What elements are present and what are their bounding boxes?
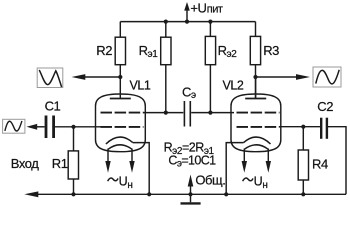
tube VL2 anode plate (245, 98, 266, 100)
tube VL1 anode plate (110, 98, 131, 100)
wire C1 to VL1 control grid (55, 126, 101, 128)
tube VL1 screen grid (dashed) (101, 112, 144, 114)
wire R3 top lead (255, 22, 257, 37)
wire R2 top lead (119, 22, 121, 38)
resistor R1 (68, 151, 78, 179)
arrowhead to input indicator (27, 124, 38, 130)
resistor Rэ2 (205, 36, 215, 64)
node junction Rэ1/rail (164, 20, 168, 24)
wire VL1 cathode lead (133, 143, 149, 195)
tube VL1 heater lead right with arrow (129, 149, 134, 173)
node C1/R1 junction (71, 125, 75, 129)
svg-text:Вход: Вход (11, 156, 39, 171)
wire bottom common rail (38, 193, 346, 195)
node junction Rэ2/rail (208, 20, 212, 24)
arrowhead to left indicator (72, 74, 86, 80)
tube VL2 screen grid (dashed) (237, 112, 280, 114)
resistor R4 (298, 150, 308, 180)
tube VL1 envelope (96, 94, 146, 152)
wire to output sine indicator (256, 76, 297, 78)
capacitor C1 (46, 116, 54, 139)
svg-text:R4: R4 (312, 156, 328, 171)
svg-text:Общ.: Общ. (195, 172, 225, 187)
tube VL1 control grid (dashed) (101, 126, 144, 128)
node anode VL2 / R3 (253, 75, 257, 79)
node R4/C2 junction (301, 125, 305, 129)
wire arrow to C1 (37, 126, 45, 128)
node Общ. / bottom rail (188, 192, 192, 196)
terminal Общ. arrow (188, 175, 194, 195)
wire R4 bottom lead (302, 180, 304, 194)
indicator box output sine (313, 67, 341, 87)
wire Rэ1 top lead (165, 22, 167, 38)
node VL2 cathode / bottom rail (224, 192, 228, 196)
node screen VL1 / Rэ1 (164, 111, 168, 115)
svg-text:C2: C2 (317, 99, 333, 114)
label ~Uн VL2 (243, 174, 268, 191)
resistor R3 (250, 36, 260, 64)
tube VL2 control grid (dashed) (237, 126, 280, 128)
svg-text:Cэ=10C1: Cэ=10C1 (168, 154, 216, 170)
wire Rэ1 bottom lead (165, 65, 167, 113)
node VL1 cathode / bottom rail (147, 192, 151, 196)
arrowhead to right indicator (296, 74, 310, 80)
svg-text:R2: R2 (96, 43, 112, 58)
tube VL2 heater (244, 145, 268, 150)
tube VL2 cathode (244, 137, 271, 144)
wire Rэ2 bottom lead (209, 65, 211, 113)
arrowhead bottom rail left (24, 191, 38, 197)
tube VL2 heater lead right with arrow (266, 149, 271, 173)
tube VL1 heater lead left with arrow (105, 149, 110, 173)
svg-text:R1: R1 (52, 156, 68, 171)
node R1/bottom rail (71, 192, 75, 196)
tube VL2 heater lead left with arrow (242, 149, 247, 173)
svg-text:C1: C1 (45, 98, 61, 113)
svg-text:R3: R3 (263, 43, 279, 58)
wire R3 bottom lead to anode node (255, 65, 257, 99)
tube VL2 envelope (231, 94, 281, 152)
ground symbol (181, 194, 201, 203)
label ~Uн VL1 (108, 174, 133, 191)
wire to distorted-wave indicator (85, 76, 120, 78)
wire Rэ2 top lead (209, 22, 211, 37)
node screen VL2 / Rэ2 (208, 111, 212, 115)
tube VL2 anode lead (255, 77, 257, 99)
resistor R2 (115, 37, 125, 64)
wire C2 to right rail (328, 127, 346, 195)
svg-text:VL2: VL2 (223, 79, 244, 93)
wire R4 top lead (302, 127, 304, 150)
wire R1 bottom lead (73, 179, 75, 194)
resistor Rэ1 (161, 37, 171, 64)
node R4 / bottom rail (301, 192, 305, 196)
svg-text:VL1: VL1 (130, 79, 151, 93)
wire top supply rail (120, 21, 255, 23)
wire Cэ to VL2 screen (191, 112, 234, 114)
wire VL2 grid to C2 (280, 126, 321, 128)
node junction +Uпит/rail (185, 20, 189, 24)
wire VL1 screen to Cэ (144, 112, 184, 114)
terminal +Uпит arrow (184, 2, 190, 22)
wire R1 top lead (73, 127, 75, 151)
wire VL2 cathode lead (226, 143, 243, 195)
capacitor Cэ (184, 101, 190, 127)
wire R2 bottom lead to anode node (119, 65, 121, 99)
tube VL1 cathode (106, 137, 133, 144)
indicator box input sine (3, 119, 25, 133)
capacitor C2 (321, 118, 327, 139)
tube VL1 heater (108, 145, 132, 150)
indicator box distorted waveform (37, 68, 63, 88)
node anode VL1 / R2 (118, 75, 122, 79)
